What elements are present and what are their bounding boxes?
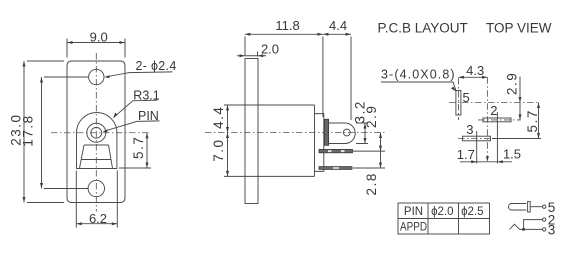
body bottom edge: [224, 175, 315, 177]
body top edge: [224, 104, 315, 106]
pin tab hole: [343, 129, 350, 136]
svg-text:1.5: 1.5: [503, 147, 521, 162]
svg-text:7.0: 7.0: [211, 138, 226, 161]
dim 3.2 extension lines: [356, 123, 368, 144]
pin extension lines: [353, 151, 385, 168]
leader PIN: [105, 121, 160, 131]
bottom dim line: [460, 161, 512, 163]
horizontal centerline: [51, 132, 150, 134]
table frame: [398, 203, 490, 234]
label leader underline: [381, 82, 456, 90]
svg-text:2: 2: [490, 103, 497, 118]
leader R3.1: [114, 100, 158, 117]
table row divider: [398, 218, 490, 220]
dim 9.0 line: [67, 42, 125, 44]
dim 2.9 layout line: [519, 77, 521, 121]
dim 2.9 right line: [380, 133, 382, 152]
dim 17.8 line: [41, 77, 43, 189]
svg-text:1.7: 1.7: [457, 147, 475, 162]
svg-text:APPD: APPD: [400, 222, 427, 234]
pin circle: [91, 127, 102, 138]
pad 3 center extension: [476, 131, 478, 164]
svg-text:3: 3: [548, 222, 556, 237]
svg-text:4.4: 4.4: [329, 18, 347, 33]
leader 2-phi2.4: [106, 72, 173, 77]
side centerline: [205, 132, 385, 134]
svg-text:P.C.B LAYOUT: P.C.B LAYOUT: [378, 21, 468, 36]
svg-text:2.9: 2.9: [364, 105, 379, 128]
dim 5.7 layout line: [538, 103, 540, 139]
svg-text:2.0: 2.0: [261, 42, 279, 57]
center boss arch R3.1: [77, 112, 117, 168]
svg-text:4.4: 4.4: [211, 106, 226, 129]
dim 5.7 extension line: [119, 167, 151, 169]
contact 2 wire: [524, 220, 543, 230]
contact 5 wire: [530, 206, 542, 208]
pad 2 centerline: [478, 119, 520, 121]
svg-text:11.8: 11.8: [275, 18, 299, 33]
table column dividers: [428, 203, 459, 234]
svg-text:ϕ2.5: ϕ2.5: [461, 206, 483, 218]
svg-text:3-(4.0X0.8): 3-(4.0X0.8): [381, 68, 456, 82]
contact 2 terminal: [543, 218, 546, 221]
svg-text:9.0: 9.0: [90, 30, 108, 45]
contact 3 terminal: [543, 228, 546, 231]
dim 11.8 extension lines: [245, 37, 323, 118]
top mounting hole: [89, 69, 104, 84]
pin tab: [329, 123, 356, 144]
layout vertical centerline: [486, 77, 488, 158]
dim 5.7 line: [146, 133, 148, 168]
pad 5 centerline: [457, 78, 459, 120]
vertical centerline: [95, 53, 97, 212]
svg-text:3: 3: [466, 122, 473, 137]
trapezoid terminal: [80, 145, 113, 168]
svg-text:5.7: 5.7: [525, 109, 540, 132]
dim 23.0 line: [23, 61, 25, 203]
contact 5 terminal: [543, 205, 546, 208]
body right edge: [314, 105, 316, 176]
collar: [324, 119, 328, 145]
dim 2.8 line: [380, 151, 382, 168]
bottom mounting hole: [88, 180, 104, 196]
dim 17.8 extension lines: [44, 77, 88, 189]
mounting plate outline: [67, 61, 125, 203]
pad 5: [456, 91, 461, 116]
flange plate: [245, 59, 258, 204]
svg-text:5.7: 5.7: [131, 136, 146, 159]
pad 3: [463, 136, 491, 141]
pin 1: [319, 149, 353, 152]
dim 4.4 top extension: [350, 37, 352, 121]
pad 2: [483, 118, 511, 122]
dim 9.0 extension lines: [67, 39, 125, 58]
svg-text:TOP VIEW: TOP VIEW: [486, 21, 552, 36]
dim 11.8 line: [245, 33, 323, 35]
dim 4.3 line: [458, 76, 487, 78]
svg-text:ϕ2.0: ϕ2.0: [431, 206, 453, 218]
sleeve bar: [528, 202, 531, 212]
dim 4.4 left line: [227, 105, 229, 133]
svg-text:PIN: PIN: [404, 206, 423, 218]
pad 3 centerline: [458, 138, 492, 140]
barrel step: [315, 114, 324, 172]
spring contact zigzag: [510, 224, 543, 229]
pad 2 center extension: [496, 112, 498, 164]
barrel outer circle: [87, 123, 106, 142]
svg-text:17.8: 17.8: [20, 114, 35, 146]
dim 5.7 layout extension: [492, 138, 541, 140]
svg-text:4.3: 4.3: [466, 63, 484, 78]
svg-text:2.8: 2.8: [364, 172, 379, 195]
dim 7.0 line: [227, 133, 229, 177]
dim 3.2 line: [364, 123, 366, 144]
dim 4.4 top line: [323, 33, 351, 35]
dim 2.0 line: [237, 55, 266, 57]
layout horizontal centerline: [449, 102, 539, 104]
dim 6.2 line: [76, 223, 117, 225]
plug tip symbol: [508, 204, 526, 211]
dim 6.2 extension lines: [76, 171, 117, 228]
dim 23.0 extension lines: [27, 61, 64, 203]
svg-text:2- ϕ2.4: 2- ϕ2.4: [136, 59, 177, 73]
svg-text:6.2: 6.2: [89, 211, 107, 226]
svg-text:2.9: 2.9: [505, 72, 520, 95]
junction dot: [522, 228, 525, 231]
dim 2.0 extension lines: [257, 52, 259, 57]
pin 2: [319, 167, 352, 170]
